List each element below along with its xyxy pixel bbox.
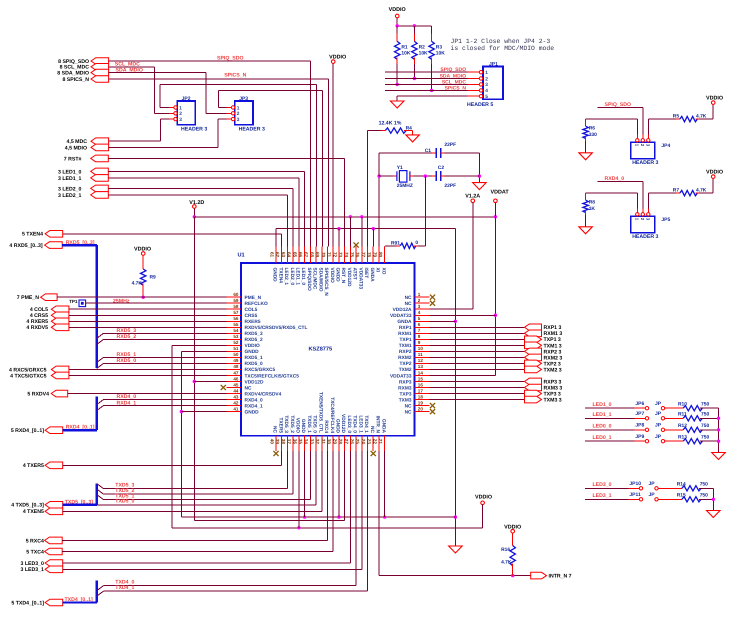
pin 12 TXP2 stub xyxy=(415,362,430,364)
svg-text:R91: R91 xyxy=(391,240,400,246)
wire SCL_MDC to JP2 pin 2 horizontal xyxy=(154,112,169,114)
JP3 pin 3 stub xyxy=(227,118,232,120)
JP1 pin 1 stub xyxy=(468,71,480,73)
pin 51 GNDD stub xyxy=(226,350,241,352)
wire SPIQ_SDO horizontal xyxy=(109,60,311,62)
svg-text:R2: R2 xyxy=(419,45,426,51)
wire R1 top lead maroon xyxy=(396,26,398,34)
svg-text:PME_N: PME_N xyxy=(245,295,262,301)
off-page connector flag TXM1 xyxy=(525,342,542,349)
svg-text:LED2_1: LED2_1 xyxy=(283,268,289,286)
pin 75 ATST stub xyxy=(355,246,357,263)
svg-text:3: 3 xyxy=(237,117,240,123)
pin 53 RXD5_2 stub xyxy=(226,338,241,340)
JP8 left pin stub xyxy=(635,429,646,431)
R11 left lead xyxy=(665,417,683,419)
svg-text:R9: R9 xyxy=(150,274,157,280)
wire GNDD pin 72 vertical xyxy=(338,229,340,247)
wire TXD4_0 horizontal xyxy=(104,585,357,587)
svg-text:TXD5_0: TXD5_0 xyxy=(312,415,318,433)
svg-text:GNDD: GNDD xyxy=(272,268,278,283)
pin 7 RXM1 stub xyxy=(415,332,430,334)
pin 67 SPIQ/SDO stub xyxy=(309,246,311,263)
svg-text:LED2_0: LED2_0 xyxy=(289,268,295,286)
svg-text:TXC4/REFCLK4: TXC4/REFCLK4 xyxy=(329,397,335,433)
pin 71 VDDIO stub xyxy=(332,246,334,263)
wire LED2_1 vertical xyxy=(286,195,288,246)
wire RXD5_2 to pin 53 xyxy=(104,338,227,340)
svg-text:10K: 10K xyxy=(419,50,428,56)
svg-text:RXM1: RXM1 xyxy=(398,331,412,337)
svg-text:77: 77 xyxy=(361,252,366,258)
wire RXDV5 to pin 55 xyxy=(69,326,226,328)
svg-text:XI: XI xyxy=(375,268,381,273)
JP9 pin 2 circle xyxy=(661,440,664,443)
svg-text:NC: NC xyxy=(405,301,412,307)
svg-text:10: 10 xyxy=(418,346,424,351)
svg-text:8 SDA_MDIO: 8 SDA_MDIO xyxy=(57,71,89,77)
wire CRS5 to pin 57 xyxy=(69,314,226,316)
svg-text:VDD12A: VDD12A xyxy=(393,307,412,313)
wire R2 bottom lead red xyxy=(413,57,415,64)
svg-text:4: 4 xyxy=(418,310,421,315)
header JP1 body xyxy=(483,67,503,100)
wire R9 top lead xyxy=(142,255,144,269)
svg-text:25: 25 xyxy=(355,439,360,445)
wire ISET pin 77 vertical xyxy=(367,131,369,247)
wire R1 top lead xyxy=(396,34,398,42)
pin 48 RXC5/GRXC5 stub xyxy=(226,368,241,370)
off-page connector flag LED2_1 xyxy=(91,192,109,199)
wire R5 right lead xyxy=(699,118,713,120)
wire JP3 pin 1 horizontal xyxy=(219,107,227,109)
pin 8 TXP1 stub xyxy=(415,338,430,340)
svg-text:16: 16 xyxy=(418,382,424,387)
wire TXEN5 vertical to pin 32 xyxy=(321,451,323,511)
svg-text:59: 59 xyxy=(233,298,239,303)
svg-text:72: 72 xyxy=(332,252,337,258)
svg-text:66: 66 xyxy=(298,252,303,258)
svg-text:CRS5: CRS5 xyxy=(245,313,258,319)
pin 26 TXD4_0 stub xyxy=(355,436,357,451)
svg-text:RXP2: RXP2 xyxy=(399,349,412,355)
wire MDC to JP2 pin 3 horizontal xyxy=(160,118,169,120)
wire R7 to VDDIO xyxy=(712,178,714,193)
wire RXD5_1 to pin 50 xyxy=(104,356,227,358)
JP3 pin 1 stub xyxy=(227,107,232,109)
svg-text:4,5 MDIO: 4,5 MDIO xyxy=(65,145,87,151)
svg-text:37: 37 xyxy=(287,439,292,445)
svg-text:1: 1 xyxy=(418,292,421,297)
wire R3 top lead xyxy=(431,34,433,42)
svg-text:45: 45 xyxy=(233,382,239,387)
JP5 pin 2 circle xyxy=(641,213,644,216)
svg-text:LED3_1: LED3_1 xyxy=(357,415,363,433)
wire SDA_MDIO horizontal xyxy=(109,72,206,74)
JP6 left pin stub xyxy=(635,407,646,409)
svg-text:9: 9 xyxy=(418,340,421,345)
svg-text:55: 55 xyxy=(233,322,239,327)
no-connect X pin 40 xyxy=(273,451,278,456)
svg-text:3 LED2_1: 3 LED2_1 xyxy=(58,193,81,199)
wire JP2 pin 1 horizontal xyxy=(160,107,169,109)
svg-text:49: 49 xyxy=(233,358,239,363)
off-page connector flag RXP2 xyxy=(525,348,542,355)
svg-text:4 RXDV5: 4 RXDV5 xyxy=(26,325,48,331)
JP2 pin 2 circle xyxy=(174,112,177,115)
svg-text:3: 3 xyxy=(179,117,182,123)
JP6 pin 1 circle xyxy=(645,407,648,410)
JP7 pin 2 circle xyxy=(661,417,664,420)
off-page connector flag TXC4 xyxy=(45,548,63,555)
svg-text:RXD5_3: RXD5_3 xyxy=(245,331,263,337)
svg-text:5 RXDV4: 5 RXDV4 xyxy=(27,391,49,397)
svg-text:VDD12D: VDD12D xyxy=(340,414,346,433)
wire GNDD pin 41 horizontal xyxy=(181,411,226,413)
bus TXD4 horizontal xyxy=(63,601,97,603)
junction LED rail R12 xyxy=(717,428,720,431)
bus RXD5 vertical xyxy=(96,245,98,368)
svg-text:JP1: JP1 xyxy=(489,62,498,68)
svg-text:NC: NC xyxy=(405,409,412,415)
pin 50 RXD5_1 stub xyxy=(226,356,241,358)
wire TXM1 to flag xyxy=(430,344,525,346)
wire C1 right lead xyxy=(444,152,479,154)
svg-text:51: 51 xyxy=(233,346,239,351)
svg-text:3: 3 xyxy=(418,304,421,309)
svg-text:5 TXEN4: 5 TXEN4 xyxy=(22,232,43,238)
svg-text:LED1_0: LED1_0 xyxy=(593,402,612,408)
off-page connector flag TXP2 xyxy=(525,360,542,367)
wire JP2 pin 1 net to pin 68 xyxy=(160,83,316,85)
svg-text:28: 28 xyxy=(338,439,343,445)
wire GNDD left vertical xyxy=(180,351,182,517)
junction GNDA ground rail xyxy=(454,515,457,518)
wire LED group 2 vertical xyxy=(712,488,714,510)
svg-text:11: 11 xyxy=(418,352,423,357)
off-page connector flag TXER5 xyxy=(45,462,63,469)
svg-text:22PF: 22PF xyxy=(444,183,456,189)
bus RXD5 horizontal xyxy=(62,244,97,246)
bus tap TXD4_0 xyxy=(97,586,104,591)
svg-text:V1.2A: V1.2A xyxy=(465,194,480,200)
wire LED0_0 stub xyxy=(585,429,634,431)
svg-text:0: 0 xyxy=(415,240,418,246)
off-page connector flag SCL_MDC xyxy=(91,64,109,71)
svg-text:42: 42 xyxy=(233,400,239,405)
JP2 pin 3 circle xyxy=(174,117,177,120)
svg-text:2: 2 xyxy=(179,111,182,117)
wire JP5 pin 1 rail xyxy=(586,192,638,194)
JP4 pin 1 circle xyxy=(636,139,639,142)
svg-text:10K: 10K xyxy=(436,50,445,56)
svg-text:VDDIO: VDDIO xyxy=(245,343,260,349)
bus TXD5 horizontal xyxy=(63,504,97,506)
svg-text:VDD12D: VDD12D xyxy=(245,379,264,385)
wire R9 bottom lead xyxy=(142,284,144,298)
JP10 left pin stub xyxy=(629,487,640,489)
svg-text:4 RXD5_[0..3]: 4 RXD5_[0..3] xyxy=(9,243,42,249)
wire GNDA pin 78 vertical xyxy=(372,229,374,247)
svg-text:79: 79 xyxy=(372,252,377,258)
wire R2 bottom lead xyxy=(413,64,415,79)
resistor R8 xyxy=(583,200,588,212)
bus tap TXD5_2 xyxy=(97,489,104,494)
svg-text:TXD5_2: TXD5_2 xyxy=(289,415,295,433)
svg-text:JP4: JP4 xyxy=(661,143,670,149)
wire V1.2A to pin 3 xyxy=(430,308,473,310)
pin 69 SDA/MDIO stub xyxy=(321,246,323,263)
wire R5 right lead red xyxy=(695,118,699,120)
svg-text:56: 56 xyxy=(233,316,239,321)
wire JP3 pin 1 vertical xyxy=(218,90,220,107)
wire R4 to ground xyxy=(412,131,414,135)
svg-text:36: 36 xyxy=(292,439,297,445)
bus tap TXD5_1 xyxy=(97,495,104,500)
bus tap RXD5_3 xyxy=(97,333,104,338)
wire TXER5 horizontal xyxy=(63,464,282,466)
wire VDDAT vertical xyxy=(494,203,496,376)
svg-text:VDDAT: VDDAT xyxy=(491,189,510,195)
svg-text:4 TXEN5: 4 TXEN5 xyxy=(23,509,44,515)
svg-text:HEADER 3: HEADER 3 xyxy=(632,160,658,166)
off-page connector flag MDC xyxy=(91,138,109,145)
svg-text:53: 53 xyxy=(233,334,239,339)
pin 11 RXM2 stub xyxy=(415,356,430,358)
wire LED3_1 horizontal xyxy=(63,568,362,570)
svg-text:R15: R15 xyxy=(677,493,686,499)
svg-text:RXC5/GRXC5: RXC5/GRXC5 xyxy=(245,367,276,373)
svg-text:750: 750 xyxy=(701,435,709,441)
svg-text:74: 74 xyxy=(344,252,349,258)
off-page connector flag LED1_0 xyxy=(91,168,109,175)
svg-text:7: 7 xyxy=(418,328,421,333)
svg-text:JP: JP xyxy=(655,422,662,428)
pin 61 GNDD stub xyxy=(275,246,277,263)
wire VDDAT to pin 4 xyxy=(430,314,496,316)
svg-text:GNDD: GNDD xyxy=(335,268,341,283)
svg-text:68: 68 xyxy=(309,252,314,258)
off-page connector flag RXD5 bus xyxy=(45,242,63,249)
svg-text:INTR_N 7: INTR_N 7 xyxy=(549,574,572,580)
bus tap RXD5_2 xyxy=(97,339,104,344)
wire SDA_MDIO to JP3 pin 2 vertical xyxy=(205,73,207,114)
wire REFCLKO to pin 59 xyxy=(86,302,227,304)
off-page connector flag RXC4 xyxy=(45,537,63,544)
svg-text:VDDIO: VDDIO xyxy=(504,524,521,530)
pin 21 GNDA stub xyxy=(384,436,386,451)
svg-text:TXD4_1: TXD4_1 xyxy=(115,585,134,591)
svg-text:SCL/MDC: SCL/MDC xyxy=(312,268,318,290)
power symbol VDDAT xyxy=(494,199,498,203)
svg-text:5: 5 xyxy=(485,94,488,100)
pin 29 GNDD stub xyxy=(338,436,340,451)
svg-text:50: 50 xyxy=(233,352,239,357)
svg-text:69: 69 xyxy=(315,252,320,258)
svg-text:LED1_1: LED1_1 xyxy=(593,412,612,418)
bus tap RXD5_1 xyxy=(97,357,104,362)
pin 38 TXD5_3 stub xyxy=(286,436,288,451)
svg-text:67: 67 xyxy=(304,252,309,258)
svg-text:VDDAT33: VDDAT33 xyxy=(390,373,412,379)
wire R7 right lead red xyxy=(695,192,699,194)
svg-text:17: 17 xyxy=(418,388,424,393)
svg-text:LED0_0: LED0_0 xyxy=(593,424,612,430)
JP1 pin 2 circle xyxy=(479,77,482,80)
wire R1 bottom lead xyxy=(396,64,398,84)
off-page connector flag RXDV4 xyxy=(51,390,67,397)
wire LED1_1 vertical xyxy=(298,178,300,246)
svg-text:XO: XO xyxy=(380,268,386,275)
wire R14 to ground rail xyxy=(699,487,713,489)
JP1 pin 4 circle xyxy=(479,89,482,92)
svg-text:54: 54 xyxy=(233,328,239,333)
pin 80 XO stub xyxy=(384,246,386,263)
resistor R4 xyxy=(385,128,406,133)
wire TXM2 to flag xyxy=(430,368,525,370)
svg-text:LED1_0: LED1_0 xyxy=(300,268,306,286)
svg-text:NC: NC xyxy=(369,426,375,433)
svg-text:29: 29 xyxy=(332,439,337,445)
svg-text:KSZ8775: KSZ8775 xyxy=(309,347,333,353)
svg-text:62: 62 xyxy=(275,252,280,258)
svg-text:2: 2 xyxy=(485,76,488,82)
junction VDDIO rail pin 36 xyxy=(297,526,300,529)
pin 54 RXD5_3 stub xyxy=(226,332,241,334)
off-page connector flag INTR_N xyxy=(531,572,547,579)
wire TXEN4 to pin 62 xyxy=(63,233,282,235)
junction GNDD pin 72 xyxy=(337,227,340,230)
JP5 pin 1 red lead xyxy=(636,208,638,212)
resistor R12 xyxy=(683,427,702,432)
JP9 pin 1 circle xyxy=(645,440,648,443)
wire SPIQ_SDO vertical to pin 67 xyxy=(309,61,311,246)
off-page connector flag LED2_0 xyxy=(91,185,109,192)
power symbol VDDIO R9 xyxy=(141,252,145,256)
svg-text:24: 24 xyxy=(361,439,366,445)
wire JP5 pin 1 vertical xyxy=(636,193,638,208)
off-page connector flag MDIO xyxy=(91,144,109,151)
wire LED2_0 vertical xyxy=(292,188,294,246)
junction VDD12D pin 46 xyxy=(193,380,196,383)
svg-text:23: 23 xyxy=(367,439,372,445)
svg-text:RXD5_0: RXD5_0 xyxy=(245,361,263,367)
wire VDDIO rail bottom xyxy=(172,527,482,529)
svg-text:GNDA: GNDA xyxy=(397,319,412,325)
junction VDDIO rail R2 xyxy=(413,24,416,27)
JP1 pin 3 circle xyxy=(479,83,482,86)
resistor R14 xyxy=(682,486,701,491)
svg-text:R13: R13 xyxy=(678,435,687,441)
wire RXM3 to flag xyxy=(430,387,525,389)
svg-text:4: 4 xyxy=(485,88,488,94)
junction rail VDD12D pin 74 xyxy=(349,215,352,218)
JP11 pin 2 circle xyxy=(655,498,658,501)
wire V1.2D rail horizontal xyxy=(194,216,495,218)
wire R91 to crystal vertical xyxy=(424,176,426,246)
svg-text:32: 32 xyxy=(315,439,320,445)
wire JP1 pin 5 to ground xyxy=(396,96,398,101)
no-connect X pin 2 xyxy=(430,301,435,306)
pin 15 RXP3 stub xyxy=(415,380,430,382)
svg-text:ISET: ISET xyxy=(363,268,369,279)
wire RXP2 to flag xyxy=(430,350,525,352)
pin 68 SCL/MDC stub xyxy=(315,246,317,263)
wire R2 top lead maroon xyxy=(413,26,415,34)
svg-text:1: 1 xyxy=(179,105,182,111)
wire XI pin 79 vertical xyxy=(378,176,380,246)
wire Y1 left lead xyxy=(379,175,393,177)
R13 left lead xyxy=(665,440,683,442)
svg-text:1: 1 xyxy=(237,105,240,111)
JP5 pin 3 red lead xyxy=(647,208,649,212)
off-page connector flag TXEN4 xyxy=(45,231,63,238)
off-page connector flag TXM2 xyxy=(525,366,542,373)
junction ground rail pin 35 xyxy=(303,515,306,518)
svg-text:INTR_N: INTR_N xyxy=(375,416,381,434)
wire TXP3 to flag xyxy=(430,393,525,395)
junction LED rail R11 xyxy=(717,417,720,420)
svg-text:SPIQ/SDO: SPIQ/SDO xyxy=(306,268,312,291)
svg-text:10K: 10K xyxy=(401,50,410,56)
svg-text:44: 44 xyxy=(233,388,239,393)
bus TXD4 vertical xyxy=(96,581,98,603)
wire R4 left lead xyxy=(368,130,386,132)
JP4 pin 2 red lead xyxy=(642,134,644,138)
svg-text:LED1_1: LED1_1 xyxy=(294,268,300,286)
off-page connector flag LED3_0 xyxy=(45,560,63,567)
wire VDDIO pin 36 vertical xyxy=(298,451,300,528)
svg-text:RXDV4/CRSDV4: RXDV4/CRSDV4 xyxy=(245,391,282,397)
pin 19 NC stub xyxy=(415,405,430,407)
pin 5 GNDA stub xyxy=(415,320,430,322)
svg-text:LED0_1: LED0_1 xyxy=(593,435,612,441)
wire VDD12D pin 46 horizontal xyxy=(194,380,226,382)
svg-text:TXEN4: TXEN4 xyxy=(277,268,283,284)
pin 30 TXC4/REFCLK4 stub xyxy=(332,436,334,451)
svg-text:750: 750 xyxy=(700,493,708,499)
pin 59 REFCLKO stub xyxy=(226,302,241,304)
wire R3 top lead maroon xyxy=(431,26,433,34)
wire MDC vertical to JP2 pin 3 xyxy=(159,119,161,141)
wire TXC4 vertical to pin 30 xyxy=(332,451,334,552)
off-page connector flag RXD4 bus xyxy=(45,427,63,434)
svg-text:TXER5: TXER5 xyxy=(277,418,283,434)
JP8 pin 2 circle xyxy=(661,428,664,431)
svg-text:VDDIO: VDDIO xyxy=(134,246,151,252)
svg-text:REFCLKO: REFCLKO xyxy=(245,301,268,307)
wire SPICS_N horizontal xyxy=(109,78,329,80)
wire VDDIO pin 52 horizontal xyxy=(172,344,226,346)
wire VDD12D link xyxy=(194,520,344,522)
header JP4 body xyxy=(631,142,655,159)
svg-text:U1: U1 xyxy=(238,253,245,259)
JP1 pin 4 stub xyxy=(468,89,480,91)
svg-text:73: 73 xyxy=(338,252,343,258)
wire INTR_N pin 22 vertical xyxy=(378,451,380,576)
svg-text:JP: JP xyxy=(655,434,662,440)
svg-text:5 RXD4_[0..1]: 5 RXD4_[0..1] xyxy=(11,428,44,434)
ground symbol below R8 xyxy=(579,227,593,234)
svg-text:R7: R7 xyxy=(673,188,680,194)
wire R3 bottom lead red xyxy=(431,57,433,64)
wire GNDA pin 5 horizontal xyxy=(430,320,456,322)
wire MDIO vertical to JP3 pin 3 xyxy=(217,119,219,147)
svg-text:VDD12D: VDD12D xyxy=(346,268,352,287)
svg-text:22PF: 22PF xyxy=(444,142,456,148)
bus tap RXD4_1 xyxy=(97,406,104,411)
wire JP4 pin 1 vertical xyxy=(636,119,638,134)
